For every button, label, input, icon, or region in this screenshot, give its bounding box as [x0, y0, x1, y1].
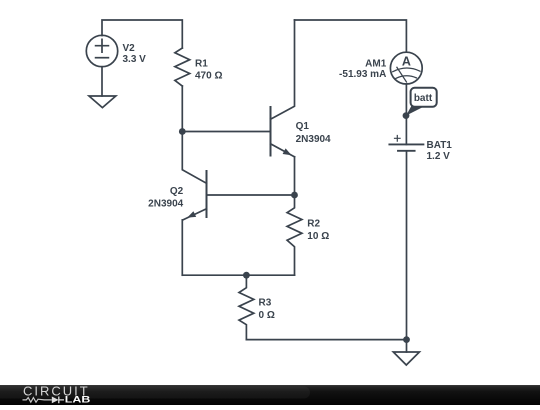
- svg-text:470 Ω: 470 Ω: [195, 71, 222, 82]
- svg-text:-51.93 mA: -51.93 mA: [339, 69, 386, 80]
- transistor Q1 emitter arrow: [283, 148, 292, 155]
- node B junction dot: [291, 192, 298, 199]
- wire ground node to ground: [406, 340, 408, 352]
- svg-text:3.3 V: 3.3 V: [123, 54, 147, 65]
- wire Q1 emitter to node B: [294, 157, 296, 195]
- svg-text:batt: batt: [414, 93, 433, 104]
- resistor R2: [287, 195, 302, 275]
- svg-text:10 Ω: 10 Ω: [307, 231, 329, 242]
- svg-text:R3: R3: [259, 298, 272, 309]
- wire AM1 to BAT1: [405, 84, 407, 144]
- svg-text:V2: V2: [123, 43, 136, 54]
- svg-text:2N3904: 2N3904: [296, 134, 331, 145]
- wire Q2 base to node B: [207, 194, 295, 196]
- svg-text:LAB: LAB: [65, 394, 91, 404]
- wire Q1 collector to AM1: [295, 20, 407, 52]
- transistor Q2 emitter: [183, 209, 207, 220]
- CircuitLab logo resistor squiggle: [23, 398, 52, 403]
- ground (BAT1): [393, 352, 419, 365]
- svg-text:Q2: Q2: [170, 186, 184, 197]
- transistor Q1 collector: [271, 20, 295, 119]
- svg-text:R2: R2: [307, 219, 320, 230]
- ammeter AM1 needle: [397, 67, 407, 82]
- transistor Q2 emitter arrow: [187, 211, 196, 217]
- footer bar inner panel: [0, 387, 310, 399]
- wire BAT1 to ground node: [406, 151, 408, 340]
- svg-text:Q1: Q1: [296, 121, 310, 132]
- wire R2 bottom to Q2 emitter: [182, 274, 294, 276]
- ground node junction dot: [403, 336, 410, 343]
- svg-text:A: A: [402, 54, 411, 68]
- node batt junction dot: [403, 112, 410, 119]
- svg-text:0 Ω: 0 Ω: [259, 310, 275, 321]
- ground (V2): [89, 96, 116, 108]
- battery BAT1 plus sign: [395, 136, 401, 142]
- transistor Q2 base bar: [206, 171, 208, 217]
- svg-text:1.2 V: 1.2 V: [427, 151, 451, 162]
- node C junction dot: [243, 272, 250, 279]
- batt flag bubble: [411, 88, 437, 107]
- resistor R1: [175, 48, 190, 86]
- resistor R3: [239, 275, 254, 339]
- svg-text:BAT1: BAT1: [427, 140, 453, 151]
- V2 plus sign: [96, 39, 109, 52]
- node A junction dot: [179, 128, 186, 135]
- svg-text:AM1: AM1: [365, 59, 387, 70]
- svg-text:R1: R1: [195, 59, 208, 70]
- footer bar: [0, 385, 540, 405]
- battery BAT1 long plate: [389, 143, 423, 145]
- wire R3 to ground node: [246, 339, 406, 341]
- battery BAT1 short plate: [398, 150, 415, 152]
- V2 minus sign: [96, 57, 109, 59]
- ammeter AM1 body: [390, 52, 422, 84]
- transistor Q2 collector: [182, 132, 206, 184]
- ammeter AM1 scale arcs: [393, 68, 420, 78]
- wire node A to Q1 base: [182, 131, 270, 133]
- wire R1 to node A: [181, 86, 183, 132]
- batt flag pointer: [406, 106, 425, 116]
- voltage source V2: [86, 35, 117, 66]
- wire Q2 emitter down: [181, 220, 183, 275]
- transistor Q1 base bar: [270, 107, 272, 156]
- wire V2 to ground: [101, 67, 103, 96]
- wire top-left V2 to R1: [102, 20, 182, 48]
- CircuitLab logo diode: [52, 397, 59, 404]
- transistor Q1 emitter: [271, 144, 295, 157]
- svg-text:2N3904: 2N3904: [148, 199, 183, 210]
